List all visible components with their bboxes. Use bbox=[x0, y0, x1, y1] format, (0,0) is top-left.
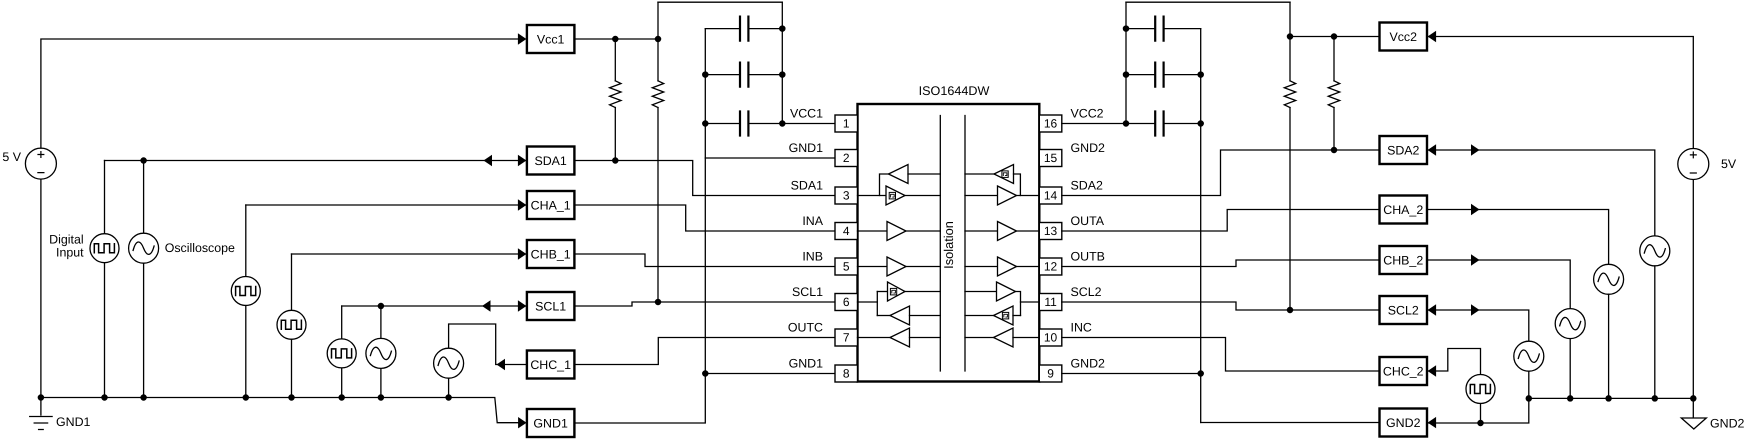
wire cap right lead bbox=[748, 123, 782, 125]
junction bbox=[1123, 72, 1128, 77]
wire cap left lead bbox=[705, 28, 740, 30]
pin 11 bbox=[1039, 294, 1062, 311]
wire barrier to SDA2 driver bbox=[965, 195, 998, 197]
pin 9 bbox=[1039, 365, 1062, 382]
wire R4 upper lead bbox=[1333, 37, 1335, 81]
arrowhead SCL2 right bbox=[1471, 304, 1480, 315]
buffer SCL1 driver (left) bbox=[888, 282, 906, 301]
pin 15 bbox=[1039, 150, 1062, 167]
source SCL1 sine bbox=[366, 338, 396, 368]
terminal box CHB_1 bbox=[527, 240, 575, 268]
svg-text:SDA1: SDA1 bbox=[791, 178, 823, 192]
wire V1- to ground bus bbox=[40, 179, 42, 397]
wire source bottom lead bbox=[1569, 339, 1571, 399]
wire SDA2 to source bbox=[1428, 150, 1655, 236]
junction ground bus bbox=[1568, 396, 1573, 401]
wire source bottom lead bbox=[291, 339, 293, 397]
svg-text:15: 15 bbox=[1044, 151, 1058, 165]
wire CHC_1 net bbox=[449, 324, 527, 365]
wire ground bus GND1 bbox=[41, 398, 519, 423]
pin 5 bbox=[835, 258, 858, 275]
wire top VCC2 rail bbox=[1126, 1, 1290, 3]
arrowhead SCL2 into box bbox=[1428, 304, 1437, 315]
svg-text:8: 8 bbox=[843, 366, 850, 380]
wire INA to barrier bbox=[906, 230, 940, 232]
pin 3 bbox=[835, 187, 858, 204]
wire pin 8 GND1 bbox=[705, 373, 835, 375]
source CHC_1 sine bbox=[434, 348, 464, 378]
svg-text:GND2: GND2 bbox=[1071, 141, 1106, 155]
pin 13 bbox=[1039, 223, 1062, 240]
buffer SCL2 driver (right) bbox=[997, 282, 1016, 301]
wire CHA_1 box to pin 4 INA bbox=[574, 205, 835, 231]
junction GND2 rail pin 9 bbox=[1198, 371, 1203, 376]
wire top VCC1 rail bbox=[658, 1, 782, 3]
svg-text:7: 7 bbox=[843, 330, 850, 344]
wire SDA1 receiver input to barrier bbox=[908, 173, 940, 175]
wire SDA1 net to box bbox=[105, 160, 527, 162]
junction CHC_2 source on GND2 wire bbox=[1478, 420, 1483, 425]
arrowhead into Vcc2 bbox=[1428, 31, 1437, 42]
svg-text:VCC2: VCC2 bbox=[1071, 106, 1104, 120]
wire SCL2 receiver tip to barrier bbox=[965, 315, 994, 317]
wire OUTC to barrier bbox=[910, 337, 941, 339]
pin 10 bbox=[1039, 329, 1062, 346]
svg-text:GND2: GND2 bbox=[1386, 416, 1421, 430]
svg-text:CHC_2: CHC_2 bbox=[1383, 364, 1424, 378]
wire pin5 INB bbox=[858, 266, 888, 268]
capacitor C2 bbox=[740, 63, 748, 87]
junction R1 bottom on SDA1 bbox=[613, 158, 618, 163]
wire SCL2 to source bbox=[1428, 310, 1529, 341]
schmitt symbol bbox=[1002, 171, 1008, 178]
svg-text:CHC_1: CHC_1 bbox=[530, 358, 571, 372]
arrowhead GND2 into box bbox=[1428, 417, 1437, 428]
buffer INA driver bbox=[887, 222, 906, 241]
wire Vcc2 to V2 bbox=[1428, 37, 1694, 149]
wire SCL2 receiver input bbox=[1013, 315, 1021, 317]
arrowhead into Vcc1 bbox=[518, 33, 527, 44]
wire CHB_1 net bbox=[292, 253, 527, 255]
junction ground bus bbox=[243, 395, 248, 400]
wire VCC1 cap rail bbox=[781, 2, 783, 123]
wire Vcc1 to pull-up node bbox=[574, 38, 658, 40]
terminal box Vcc1 bbox=[527, 25, 575, 53]
junction bbox=[780, 121, 785, 126]
junction ground bus bbox=[102, 395, 107, 400]
capacitor C4 bbox=[1155, 17, 1163, 41]
wire CHA_2 to source bbox=[1427, 210, 1609, 265]
svg-text:SCL2: SCL2 bbox=[1388, 303, 1419, 317]
wire R2 upper lead bbox=[657, 2, 659, 81]
junction SCL1 sine source bbox=[378, 303, 383, 308]
junction GND1 rail pin 8 bbox=[703, 371, 708, 376]
terminal box CHC_1 bbox=[527, 351, 575, 379]
wire barrier to OUTB bbox=[965, 266, 998, 268]
wire cap right lead bbox=[748, 74, 782, 76]
wire CHC_2 to source bbox=[1428, 349, 1481, 375]
capacitor C1 bbox=[740, 17, 748, 41]
capacitor C3 bbox=[740, 112, 748, 136]
wire SCL2 to pin 11 bbox=[1021, 301, 1040, 303]
junction ground bus bbox=[446, 395, 451, 400]
wire pin3 to SDA1 driver bbox=[858, 195, 887, 197]
wire GND2 rail to GND2 box bbox=[1201, 422, 1380, 424]
wire source bottom lead bbox=[448, 378, 450, 397]
wire source bottom lead bbox=[1528, 371, 1530, 398]
terminal box CHA_1 bbox=[527, 191, 575, 219]
wire CHA_1 net bbox=[246, 204, 527, 206]
svg-text:4: 4 bbox=[843, 224, 850, 238]
svg-text:GND1: GND1 bbox=[56, 415, 91, 429]
capacitor C6 bbox=[1155, 112, 1163, 136]
junction ground bus bbox=[141, 395, 146, 400]
voltage source V2 5V circle bbox=[1678, 149, 1709, 180]
wire SCL1 receiver input to barrier bbox=[910, 315, 941, 317]
source digital input square wave bbox=[90, 234, 119, 263]
pin 1 bbox=[835, 115, 858, 132]
buffer INC receiver bbox=[994, 328, 1014, 347]
svg-text:5V: 5V bbox=[1721, 157, 1737, 171]
wire cap right lead bbox=[748, 28, 782, 30]
wire Vcc2 node bbox=[1290, 36, 1380, 38]
svg-text:ISO1644DW: ISO1644DW bbox=[919, 84, 990, 98]
wire pin 1 VCC1 bbox=[782, 123, 835, 125]
junction bbox=[1198, 121, 1203, 126]
junction R2 bottom on SCL1 bbox=[655, 299, 660, 304]
wire VCC2 cap rail bbox=[1125, 2, 1127, 123]
junction oscilloscope on SDA1 bbox=[141, 158, 146, 163]
junction bbox=[1123, 121, 1128, 126]
wire R3 lower lead to SCL2 bbox=[1289, 108, 1291, 311]
junction R4 top bbox=[1331, 34, 1336, 39]
wire pin6 SCL1 bbox=[858, 301, 878, 303]
wire source bottom lead bbox=[1654, 266, 1656, 399]
buffer SCL1 receiver (left) bbox=[890, 306, 910, 325]
wire barrier to OUTA bbox=[965, 230, 998, 232]
terminal box SCL1 bbox=[527, 292, 575, 320]
wire cap left lead bbox=[1126, 28, 1155, 30]
junction ground bus bbox=[339, 395, 344, 400]
wire cap right lead bbox=[1164, 74, 1201, 76]
wire INC to pin 10 bbox=[1013, 337, 1039, 339]
wire SDA2 driver to pin 14 bbox=[1017, 195, 1040, 197]
wire pin 10 INC to CHC_2 box bbox=[1062, 338, 1380, 372]
svg-text:INB: INB bbox=[802, 249, 823, 263]
voltage source V1 5 V circle bbox=[25, 148, 56, 179]
arrowhead CHC_1 left bbox=[497, 359, 506, 370]
isolation barrier lines bbox=[940, 116, 965, 372]
wire V1+ to Vcc1 bbox=[41, 39, 519, 148]
svg-text:Vcc1: Vcc1 bbox=[537, 32, 565, 46]
wire oscilloscope top lead bbox=[143, 161, 145, 234]
terminal box CHB_2 bbox=[1380, 246, 1428, 274]
wire cap left lead bbox=[1126, 123, 1155, 125]
svg-text:SCL2: SCL2 bbox=[1071, 285, 1102, 299]
wire CHC_2 source bottom lead bbox=[1480, 404, 1482, 424]
svg-text:SDA2: SDA2 bbox=[1387, 143, 1419, 157]
terminal box CHC_2 bbox=[1380, 357, 1428, 385]
wire OUTA to pin 13 bbox=[1017, 230, 1040, 232]
svg-text:CHA_1: CHA_1 bbox=[531, 198, 571, 212]
arrowhead CHA_2 right bbox=[1471, 204, 1480, 215]
wire R4 lower lead bbox=[1333, 108, 1335, 151]
wire CHB_1 source top lead bbox=[291, 254, 293, 310]
source CHC_2 square wave bbox=[1466, 375, 1495, 404]
schmitt symbol bbox=[890, 288, 896, 295]
junction R3 top bbox=[1287, 34, 1292, 39]
wire source bottom lead bbox=[245, 306, 247, 398]
terminal box GND2 bbox=[1380, 409, 1428, 437]
terminal box CHA_2 bbox=[1380, 196, 1428, 224]
svg-text:9: 9 bbox=[1047, 366, 1054, 380]
wire source bottom lead bbox=[104, 263, 106, 398]
wire pin 12 OUTB to CHB_2 box bbox=[1062, 260, 1380, 267]
pin 7 bbox=[835, 329, 858, 346]
source CHA_1 square wave bbox=[231, 277, 260, 306]
junction bbox=[1123, 26, 1128, 31]
arrowhead into CHB_1 bbox=[518, 248, 527, 259]
wire cap left lead bbox=[705, 123, 740, 125]
wire INB to barrier bbox=[906, 266, 940, 268]
terminal box SCL2 bbox=[1380, 296, 1428, 324]
junction R4 bottom on SDA2 bbox=[1331, 147, 1336, 152]
svg-text:Oscilloscope: Oscilloscope bbox=[165, 241, 235, 255]
wire pin 14 to SDA2 box bbox=[1062, 150, 1380, 196]
wire cap left lead bbox=[705, 74, 740, 76]
junction pull-up R2 top bbox=[655, 36, 660, 41]
svg-text:11: 11 bbox=[1044, 295, 1057, 309]
wire SCL2 driver out branch bbox=[1016, 292, 1021, 316]
terminal box Vcc2 bbox=[1380, 23, 1428, 51]
pin 14 bbox=[1039, 187, 1062, 204]
svg-text:2: 2 bbox=[843, 151, 850, 165]
buffer OUTB driver bbox=[998, 257, 1017, 276]
terminal box SDA2 bbox=[1380, 136, 1428, 164]
junction pull-up R1 top bbox=[613, 36, 618, 41]
buffer INB driver bbox=[887, 257, 906, 276]
wire cap right lead bbox=[1164, 123, 1201, 125]
svg-text:SCL1: SCL1 bbox=[535, 299, 566, 313]
resistor R2 SCL1 pull-up bbox=[652, 81, 663, 108]
svg-text:16: 16 bbox=[1044, 116, 1058, 130]
svg-text:CHB_2: CHB_2 bbox=[1383, 253, 1423, 267]
svg-text:SCL1: SCL1 bbox=[792, 285, 823, 299]
svg-text:OUTB: OUTB bbox=[1071, 249, 1105, 263]
svg-text:14: 14 bbox=[1044, 188, 1058, 202]
svg-text:GND1: GND1 bbox=[533, 416, 568, 430]
svg-text:5: 5 bbox=[843, 259, 850, 273]
arrowhead into SDA1 box bbox=[518, 155, 527, 166]
wire INC output to barrier bbox=[965, 337, 994, 339]
wire SCL1 branch bbox=[876, 292, 878, 316]
resistor R4 SDA2 pull-up bbox=[1328, 81, 1339, 108]
ground symbol GND2 bbox=[1681, 398, 1744, 430]
source oscilloscope sine bbox=[129, 233, 159, 263]
wire pin 2 GND1 bbox=[705, 157, 835, 159]
svg-text:12: 12 bbox=[1044, 259, 1058, 273]
wire R1 upper lead bbox=[614, 39, 616, 81]
wire pin 13 OUTA to CHA_2 box bbox=[1062, 210, 1380, 232]
arrowhead CHB_2 right bbox=[1471, 254, 1480, 265]
wire source bottom lead bbox=[1608, 294, 1610, 398]
resistor R3 SCL2 pull-up bbox=[1284, 81, 1295, 108]
svg-text:SDA1: SDA1 bbox=[534, 154, 566, 168]
buffer OUTA driver bbox=[998, 222, 1017, 241]
svg-text:VCC1: VCC1 bbox=[790, 106, 823, 120]
junction bbox=[703, 121, 708, 126]
svg-text:CHB_1: CHB_1 bbox=[531, 247, 571, 261]
capacitor C5 bbox=[1155, 63, 1163, 87]
junction ground bus bbox=[1526, 396, 1531, 401]
arrowhead SDA2 right bbox=[1471, 144, 1480, 155]
wire CHB_2 to source bbox=[1427, 260, 1570, 309]
junction bbox=[1198, 72, 1203, 77]
svg-text:OUTC: OUTC bbox=[788, 320, 823, 334]
svg-text:1: 1 bbox=[843, 116, 850, 130]
junction bbox=[703, 72, 708, 77]
wire pin 16 VCC2 bbox=[1062, 123, 1126, 125]
wire cap right lead bbox=[1164, 28, 1201, 30]
wire cap left lead bbox=[1126, 74, 1155, 76]
pin 6 bbox=[835, 294, 858, 311]
terminal box GND1 bbox=[527, 409, 575, 437]
wire SCL1 net bbox=[342, 305, 527, 307]
source SCL2 sine bbox=[1514, 341, 1544, 371]
junction bbox=[780, 72, 785, 77]
wire V2- to ground bbox=[1692, 180, 1694, 399]
svg-text:Isolation: Isolation bbox=[941, 221, 956, 269]
junction ground bus bbox=[1691, 396, 1696, 401]
wire digital input top lead bbox=[104, 161, 106, 234]
pin 16 bbox=[1039, 115, 1062, 132]
wire pin7 OUTC bbox=[858, 337, 891, 339]
svg-text:SDA2: SDA2 bbox=[1071, 178, 1103, 192]
junction ground bus bbox=[289, 395, 294, 400]
junction ground bus bbox=[378, 395, 383, 400]
wire SCL1 receiver output bbox=[877, 315, 890, 317]
junction bbox=[780, 26, 785, 31]
buffer OUTC receiver (left) bbox=[890, 328, 910, 347]
wire SCL1 driver output to barrier bbox=[905, 291, 940, 293]
wire GND2 box to bus bbox=[1428, 398, 1529, 423]
arrowhead into CHA_1 bbox=[518, 199, 527, 210]
wire SDA2 receiver to pin14 net bbox=[1014, 174, 1021, 196]
wire CHB_1 box to pin 5 INB bbox=[574, 254, 835, 267]
schmitt symbol bbox=[1002, 312, 1008, 319]
svg-text:GND1: GND1 bbox=[789, 141, 824, 155]
source CHA_2 sine bbox=[1594, 264, 1624, 294]
svg-text:OUTA: OUTA bbox=[1071, 214, 1105, 228]
svg-text:Vcc2: Vcc2 bbox=[1389, 30, 1417, 44]
svg-text:GND2: GND2 bbox=[1710, 417, 1744, 431]
svg-text:3: 3 bbox=[843, 188, 850, 202]
wire SDA1 box to pin 3 bbox=[574, 161, 835, 196]
wire source bottom lead bbox=[380, 369, 382, 398]
junction ground bus bbox=[1652, 396, 1657, 401]
terminal box SDA1 bbox=[527, 147, 575, 175]
buffer SDA1 receiver (left) bbox=[889, 165, 909, 184]
svg-text:Input: Input bbox=[56, 246, 84, 260]
buffer SDA2 driver (right) bbox=[998, 186, 1017, 205]
svg-text:CHA_2: CHA_2 bbox=[1383, 203, 1423, 217]
wire pin4 INA bbox=[858, 230, 888, 232]
arrowhead SCL1 left bbox=[482, 300, 491, 311]
svg-text:Digital: Digital bbox=[49, 233, 83, 247]
junction ground bus bbox=[38, 395, 43, 400]
arrowhead into SCL1 box bbox=[518, 300, 527, 311]
svg-text:10: 10 bbox=[1044, 330, 1058, 344]
wire source bottom lead bbox=[143, 263, 145, 397]
wire SCL1 square source top lead bbox=[341, 306, 343, 339]
wire SCL1 driver input bbox=[877, 291, 887, 293]
svg-text:GND2: GND2 bbox=[1071, 356, 1106, 370]
arrowhead into GND1 box bbox=[518, 417, 527, 428]
pin 4 bbox=[835, 223, 858, 240]
pin 12 bbox=[1039, 258, 1062, 275]
buffer SCL2 receiver (right) bbox=[994, 306, 1014, 325]
source CHB_1 square wave bbox=[277, 310, 306, 339]
buffer SDA2 receiver (right) bbox=[994, 165, 1014, 184]
wire CHC_1 box to pin 7 OUTC bbox=[574, 338, 835, 365]
svg-text:INC: INC bbox=[1071, 320, 1092, 334]
wire SCL1 box to pin 6 bbox=[574, 302, 835, 306]
wire R1 lower lead bbox=[614, 108, 616, 161]
svg-text:13: 13 bbox=[1044, 224, 1058, 238]
wire GND2 rail bbox=[1200, 29, 1202, 423]
wire CHA_1 source top lead bbox=[245, 205, 247, 277]
wire barrier to SCL2 driver bbox=[965, 291, 997, 293]
pin 2 bbox=[835, 150, 858, 167]
wire pin 11 to SCL2 box bbox=[1062, 302, 1380, 310]
wire source bottom lead bbox=[341, 368, 343, 397]
wire R2 lower lead to SCL1 bbox=[657, 108, 659, 303]
arrowhead CHC_2 into box bbox=[1428, 365, 1437, 376]
wire SDA1 driver output to barrier bbox=[905, 195, 940, 197]
svg-text:INA: INA bbox=[802, 214, 823, 228]
wire ground bus right bbox=[1529, 397, 1694, 399]
source CHB_2 sine bbox=[1555, 309, 1585, 339]
wire SDA1 receiver output bbox=[880, 174, 889, 196]
pin 8 bbox=[835, 365, 858, 382]
buffer SDA1 driver (left) bbox=[886, 186, 905, 205]
junction ground bus bbox=[1606, 396, 1611, 401]
svg-text:6: 6 bbox=[843, 295, 850, 309]
svg-text:5 V: 5 V bbox=[2, 150, 21, 164]
schmitt symbol bbox=[889, 192, 895, 199]
wire barrier to SDA2 receiver bbox=[965, 173, 994, 175]
ground symbol GND1 bbox=[30, 398, 91, 430]
wire OUTB to pin 12 bbox=[1017, 266, 1040, 268]
source SCL1 square wave bbox=[327, 339, 356, 368]
arrowhead SDA2 into box bbox=[1428, 144, 1437, 155]
resistor R1 SDA1 pull-up bbox=[610, 81, 621, 108]
wire SCL1 sine source top lead bbox=[380, 306, 382, 338]
wire VCC2 rail down / R3 upper lead bbox=[1289, 2, 1291, 81]
wire pin 9 GND2 bbox=[1062, 373, 1201, 375]
arrowhead SDA1 left bbox=[484, 155, 493, 166]
op-amp U1 ISO1644DW body bbox=[858, 104, 1040, 382]
svg-text:GND1: GND1 bbox=[789, 356, 824, 370]
junction R3 bottom on SCL2 bbox=[1287, 307, 1292, 312]
source SDA2 sine bbox=[1640, 236, 1670, 266]
wire GND1 box to GND1 rail bbox=[574, 29, 705, 423]
